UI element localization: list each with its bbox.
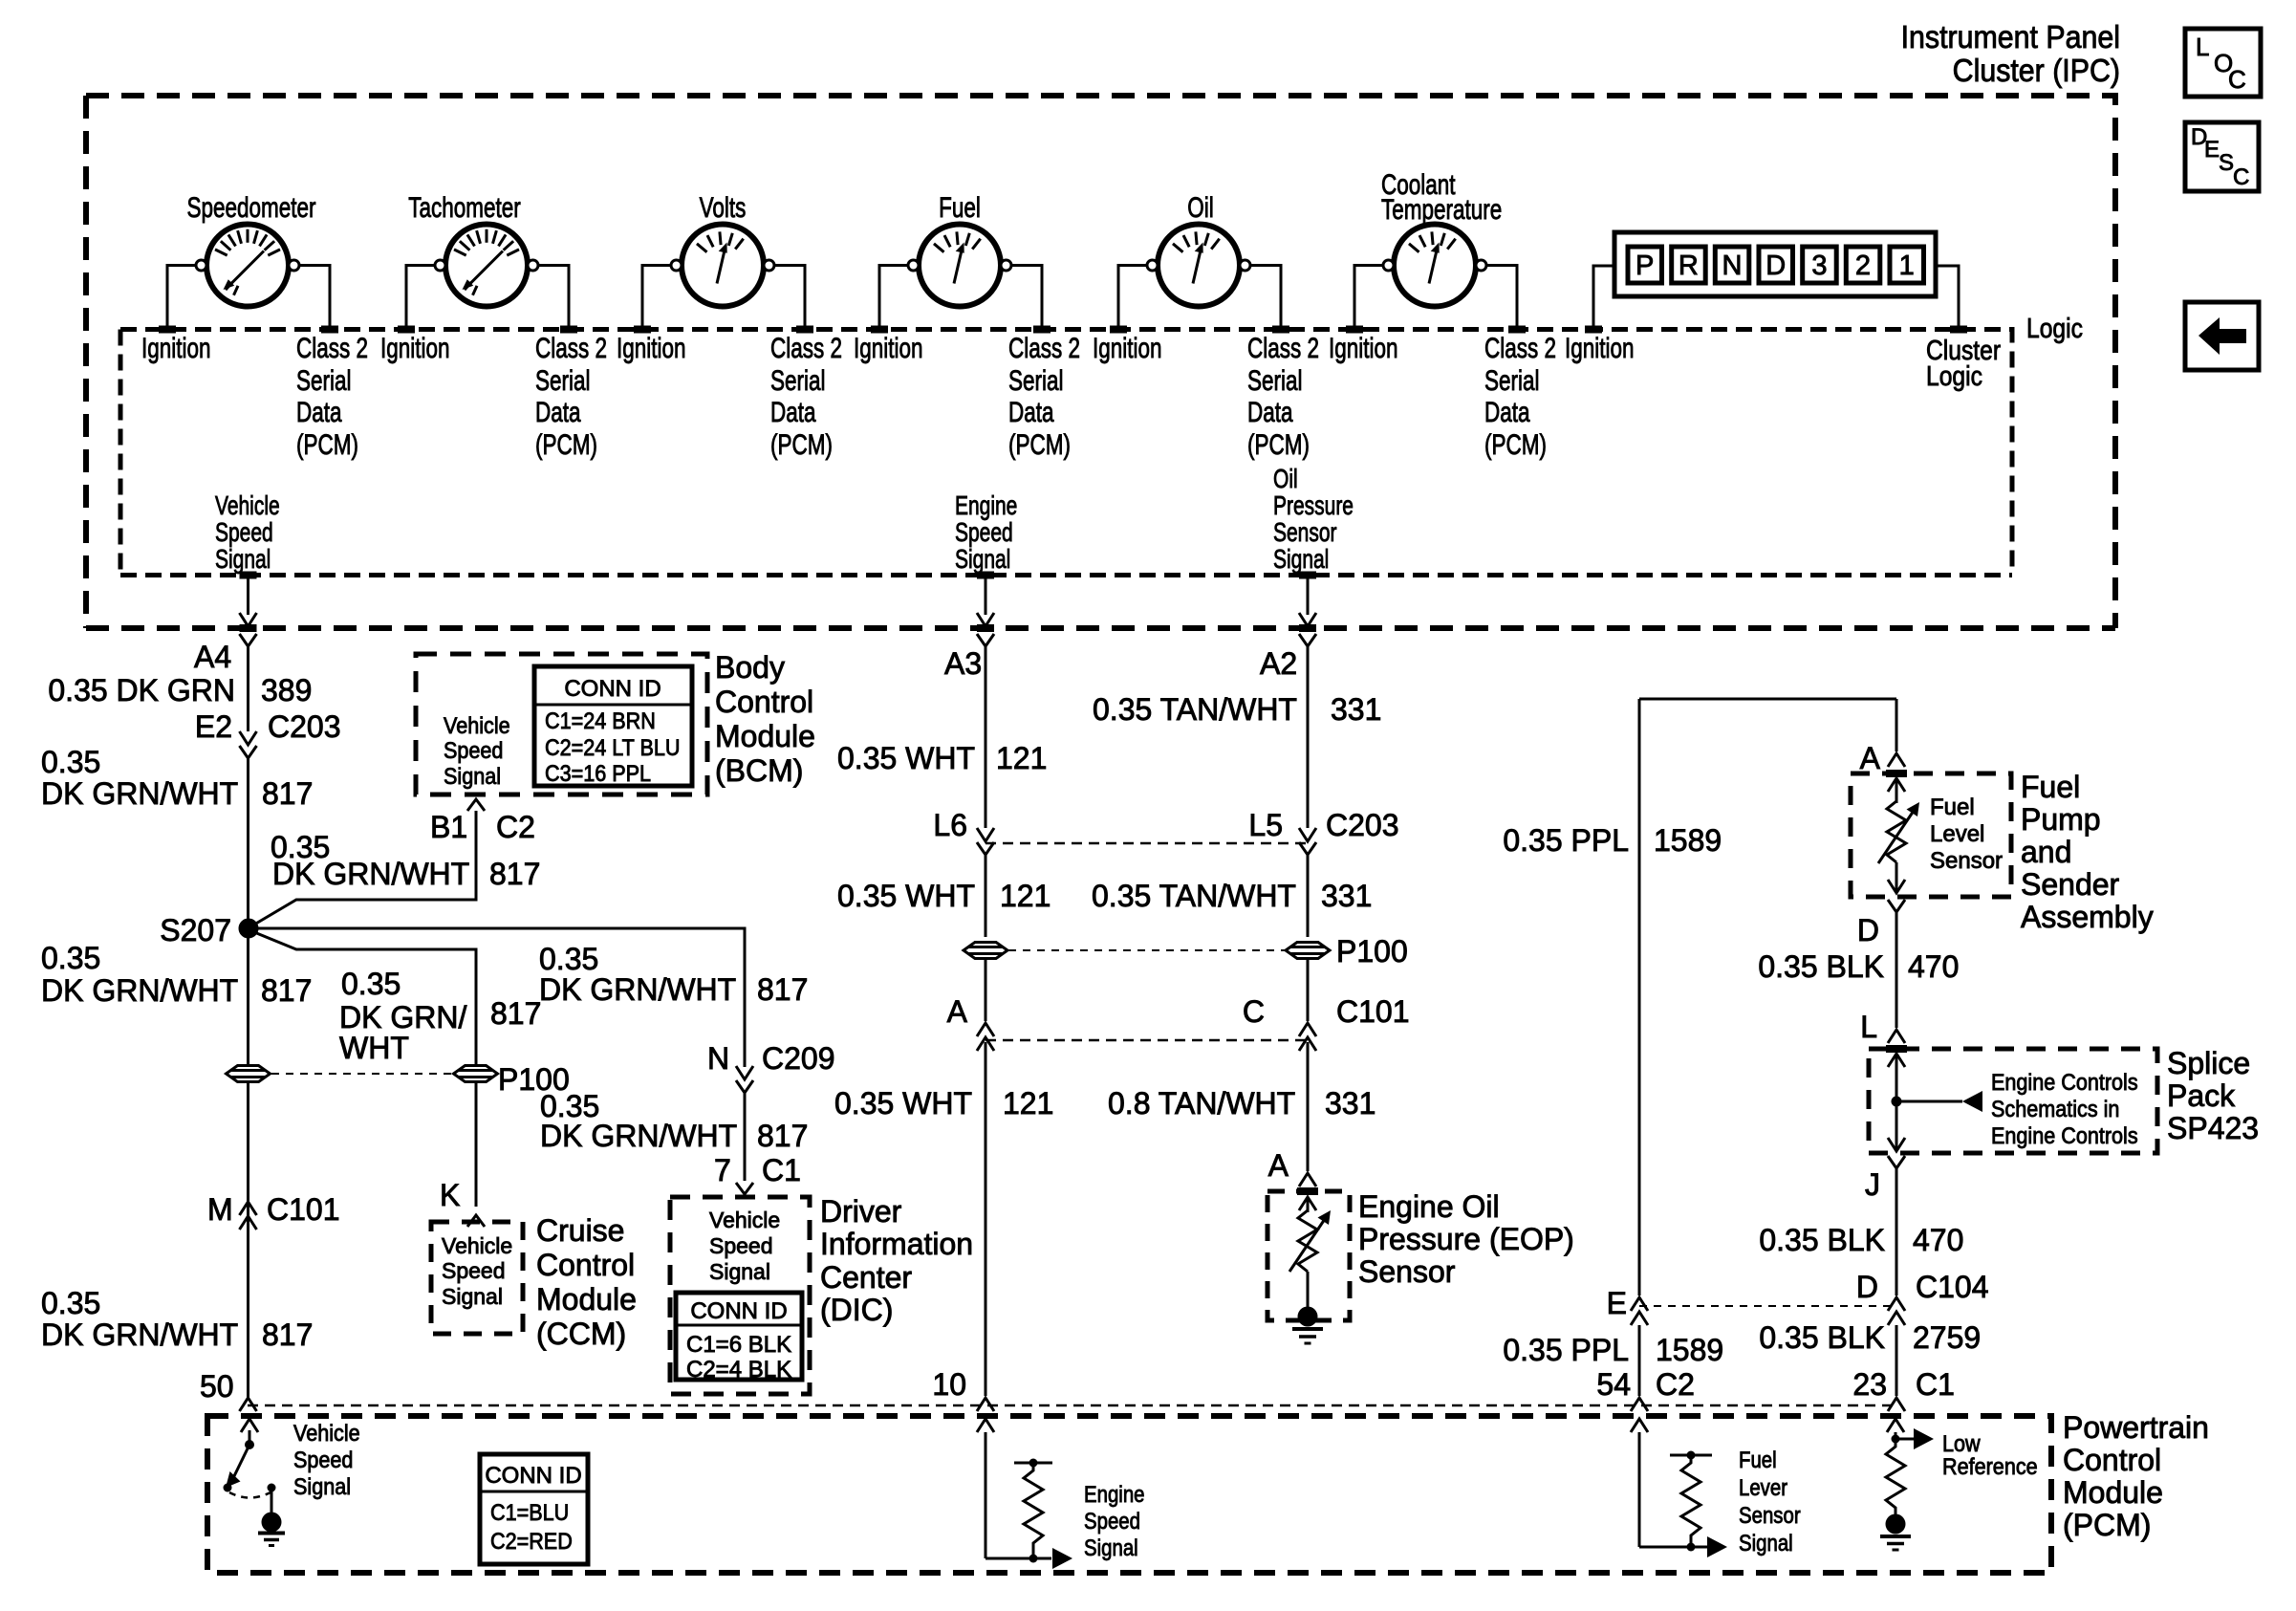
EOP variable resistor arrow xyxy=(1289,1216,1327,1272)
svg-text:Class 2: Class 2 xyxy=(535,332,607,364)
svg-text:Vehicle: Vehicle xyxy=(442,1233,512,1258)
splice tap arrowhead xyxy=(1962,1091,1982,1112)
svg-text:C: C xyxy=(1243,994,1265,1029)
svg-text:Serial: Serial xyxy=(770,364,826,397)
svg-text:CONN ID: CONN ID xyxy=(564,676,661,702)
svg-text:50: 50 xyxy=(200,1369,234,1404)
wire 2759 C104 to PCM 23 xyxy=(1895,1325,1898,1396)
svg-text:E: E xyxy=(1607,1286,1627,1320)
connector C209 arrow (N) xyxy=(736,1066,753,1079)
wire volts class2 lead xyxy=(774,266,805,327)
connector P100 symbol (engine wire) xyxy=(964,943,1007,959)
wire coolant class2 lead xyxy=(1486,266,1517,327)
wire prndl ignition lead xyxy=(1593,266,1614,326)
label Fuel Pump and Sender Assembly xyxy=(2021,770,2154,934)
svg-text:E: E xyxy=(2204,137,2220,163)
wire vehicle speed signal: IPC inner box to outer box xyxy=(247,576,249,616)
node Engine Speed Signal (PCM) xyxy=(1084,1481,1145,1560)
wire 121 C203 to P100 xyxy=(985,855,987,937)
gauge Speedometer xyxy=(196,225,299,307)
svg-text:0.35 TAN/WHT: 0.35 TAN/WHT xyxy=(1093,692,1297,727)
connector chevron L (splice entry) xyxy=(1888,1030,1905,1043)
svg-text:Data: Data xyxy=(296,396,342,428)
svg-text:Control: Control xyxy=(2063,1443,2161,1477)
svg-text:J: J xyxy=(1865,1167,1880,1202)
connector chevron A2 xyxy=(1299,634,1316,646)
svg-text:817: 817 xyxy=(490,996,541,1031)
svg-text:A2: A2 xyxy=(1260,646,1297,681)
wire fuel ignition lead xyxy=(879,266,908,327)
svg-text:Vehicle: Vehicle xyxy=(709,1208,780,1232)
svg-text:Data: Data xyxy=(1008,396,1054,428)
connector chevron A4 xyxy=(240,634,257,646)
svg-text:Signal: Signal xyxy=(442,1284,503,1309)
wire 817 P100 to C101 xyxy=(247,1082,249,1398)
svg-text:A3: A3 xyxy=(944,646,982,681)
fuel lever resistor top bar xyxy=(1670,1454,1712,1457)
svg-text:10: 10 xyxy=(932,1367,966,1402)
arrow into outer box edge (A2) xyxy=(1299,613,1316,626)
svg-text:0.35 WHT: 0.35 WHT xyxy=(837,879,975,913)
svg-text:Speed: Speed xyxy=(442,1258,506,1283)
svg-text:C104: C104 xyxy=(1916,1270,1989,1304)
module Fuel Pump and Sender Assembly dashed box xyxy=(1851,773,2011,897)
svg-text:0.35 PPL: 0.35 PPL xyxy=(1503,823,1629,858)
tick wire entry EOP box xyxy=(1297,1187,1318,1195)
svg-text:Vehicle: Vehicle xyxy=(215,491,280,521)
wire fuel class2 lead xyxy=(1011,266,1042,327)
tick wire entry splice box xyxy=(1886,1045,1907,1053)
svg-text:0.35 BLK: 0.35 BLK xyxy=(1759,1320,1885,1355)
svg-text:3: 3 xyxy=(1811,250,1827,281)
svg-text:Lever: Lever xyxy=(1739,1474,1788,1500)
svg-text:(DIC): (DIC) xyxy=(820,1293,893,1327)
wire oil pressure signal: inner to outer box xyxy=(1307,576,1310,616)
ticks where gauge leads cross inner box top edge xyxy=(159,326,1967,334)
svg-text:DK GRN/WHT: DK GRN/WHT xyxy=(540,1119,737,1153)
svg-text:K: K xyxy=(440,1178,460,1212)
svg-text:Speed: Speed xyxy=(444,737,503,763)
svg-text:Pressure (EOP): Pressure (EOP) xyxy=(1358,1222,1574,1256)
connector C104 chevron pair (D) xyxy=(1888,1297,1905,1325)
node Vehicle Speed Signal (IPC) xyxy=(215,491,280,575)
svg-text:R: R xyxy=(1679,250,1699,281)
svg-text:Ignition: Ignition xyxy=(141,332,211,364)
wire 817 segment C203 to S207 xyxy=(247,758,249,921)
svg-text:Module: Module xyxy=(2063,1475,2163,1510)
branch wire to DIC xyxy=(256,928,745,1067)
label Splice Pack SP423 xyxy=(2167,1046,2259,1145)
svg-text:Data: Data xyxy=(535,396,581,428)
svg-text:C203: C203 xyxy=(268,709,341,744)
connector C101 chevron (A) xyxy=(977,1023,994,1036)
svg-text:C2: C2 xyxy=(1656,1367,1695,1402)
module BCM dashed box xyxy=(416,654,707,795)
svg-text:Instrument Panel: Instrument Panel xyxy=(1901,19,2120,54)
PRNDL letters xyxy=(1635,250,1915,281)
svg-text:Logic: Logic xyxy=(2026,313,2083,343)
svg-text:54: 54 xyxy=(1596,1367,1631,1402)
connector chevron pin 10 xyxy=(977,1398,994,1411)
connector chevron K xyxy=(467,1215,485,1227)
node Vehicle Speed Signal (CCM) xyxy=(442,1233,512,1309)
ground (vehicle speed) xyxy=(262,1513,282,1533)
svg-text:817: 817 xyxy=(262,776,313,811)
engine speed resistor top dot xyxy=(1029,1459,1038,1468)
svg-text:Fuel: Fuel xyxy=(1739,1447,1777,1472)
connector C203 chevron xyxy=(240,746,257,758)
svg-text:B1: B1 xyxy=(430,810,467,844)
wire oil class2 lead xyxy=(1250,266,1281,327)
svg-text:CONN ID: CONN ID xyxy=(690,1298,787,1324)
fuel lever resistor zigzag xyxy=(1681,1455,1700,1547)
node Low Reference (PCM) xyxy=(1942,1430,2038,1479)
switch pivot dot xyxy=(245,1440,254,1449)
connector chevron EOP pin A xyxy=(1299,1173,1316,1186)
tick wire entry fuel pump box xyxy=(1886,770,1907,777)
svg-text:Fuel: Fuel xyxy=(939,191,981,224)
wire 1589 PPL left leg xyxy=(1638,699,1641,1295)
svg-text:C101: C101 xyxy=(1336,994,1410,1029)
svg-text:C1=24 BRN: C1=24 BRN xyxy=(545,708,656,733)
fuel level sensor resistor zigzag xyxy=(1887,801,1906,862)
svg-text:Schematics in: Schematics in xyxy=(1991,1096,2119,1121)
svg-text:CONN ID: CONN ID xyxy=(485,1463,581,1489)
svg-text:C203: C203 xyxy=(1326,808,1399,842)
svg-text:Serial: Serial xyxy=(1247,364,1303,397)
svg-text:C1: C1 xyxy=(1916,1367,1955,1402)
wire 331 C101 to EOP sensor xyxy=(1307,1042,1310,1171)
node Engine Speed Signal (IPC) xyxy=(955,491,1017,575)
wire 817 C209 to DIC xyxy=(744,1093,747,1181)
svg-text:C2: C2 xyxy=(496,810,535,844)
module DIC dashed box xyxy=(670,1197,810,1394)
svg-text:Serial: Serial xyxy=(535,364,591,397)
svg-text:121: 121 xyxy=(996,741,1047,775)
PCM pin 50 internal arrow up xyxy=(241,1419,258,1445)
svg-text:L: L xyxy=(1860,1010,1877,1044)
svg-text:D: D xyxy=(1857,913,1879,947)
svg-text:Module: Module xyxy=(536,1282,637,1317)
svg-text:Center: Center xyxy=(820,1260,912,1295)
connector chevron pin 7 C1 xyxy=(736,1183,753,1194)
low reference tap wire xyxy=(1895,1438,1914,1441)
svg-text:Tachometer: Tachometer xyxy=(408,191,521,224)
wire 817 S207 to P100 xyxy=(247,937,249,1065)
svg-text:Data: Data xyxy=(1484,396,1530,428)
svg-text:0.35 TAN/WHT: 0.35 TAN/WHT xyxy=(1092,879,1296,913)
svg-text:A: A xyxy=(947,994,968,1029)
svg-text:Signal: Signal xyxy=(444,763,501,789)
label Driver Information Center (DIC) xyxy=(820,1194,973,1327)
label Fuel Level Sensor xyxy=(1930,795,2003,874)
connector C101 dashed plane xyxy=(986,1039,1308,1042)
svg-text:0.35: 0.35 xyxy=(41,941,100,975)
svg-text:DK GRN/WHT: DK GRN/WHT xyxy=(41,1317,238,1352)
svg-text:Vehicle: Vehicle xyxy=(293,1420,360,1446)
wire right leg down to fuel pump A xyxy=(1895,699,1898,751)
wire tachometer ignition lead xyxy=(406,266,435,327)
svg-text:389: 389 xyxy=(261,673,312,708)
BCM CONN ID table xyxy=(534,666,692,786)
low reference resistor zigzag xyxy=(1886,1439,1905,1514)
svg-text:470: 470 xyxy=(1913,1223,1963,1257)
wire 121 A3 to C203 xyxy=(985,646,987,828)
LOC reference box xyxy=(2185,29,2261,97)
svg-text:Logic: Logic xyxy=(1926,360,1982,391)
DESC reference box xyxy=(2185,122,2259,191)
svg-text:Body: Body xyxy=(715,650,785,685)
fuel level sensor internal arrow up xyxy=(1888,778,1905,803)
gauge Fuel xyxy=(908,225,1011,307)
svg-text:Temperature: Temperature xyxy=(1381,193,1502,226)
wire engine speed signal: inner to outer box xyxy=(985,576,987,616)
svg-text:E2: E2 xyxy=(195,709,232,744)
svg-text:470: 470 xyxy=(1908,949,1959,984)
engine speed junction dot xyxy=(1029,1555,1038,1563)
IPC inner cluster-logic dashed box xyxy=(120,330,2012,576)
svg-text:Class 2: Class 2 xyxy=(296,332,368,364)
switch blade arrowhead xyxy=(226,1471,241,1488)
wire 470 below fuel pump (D to L) xyxy=(1895,912,1898,1028)
svg-text:Fuel: Fuel xyxy=(2021,770,2080,804)
svg-text:DK GRN/WHT: DK GRN/WHT xyxy=(41,973,238,1008)
svg-text:(PCM): (PCM) xyxy=(296,428,358,461)
svg-text:S207: S207 xyxy=(160,913,231,947)
PRNDL gear indicator xyxy=(1614,232,1936,296)
Cluster Logic label xyxy=(1926,335,2001,391)
svg-text:Control: Control xyxy=(715,685,813,719)
connector chevron pin 54 xyxy=(1631,1398,1648,1411)
connector C101 arrow xyxy=(977,1037,994,1051)
back-arrow reference box xyxy=(2185,302,2259,370)
svg-text:D: D xyxy=(1856,1270,1878,1304)
module PCM dashed box xyxy=(207,1416,2051,1573)
svg-text:Signal: Signal xyxy=(1084,1535,1138,1560)
label Engine Controls Schematics in Engine Controls xyxy=(1991,1069,2138,1148)
connector chevron D (fuel pump exit) xyxy=(1888,900,1905,912)
fuel lever junction dot xyxy=(1687,1543,1696,1552)
svg-text:Speedometer: Speedometer xyxy=(187,191,316,224)
svg-text:2: 2 xyxy=(1855,250,1871,281)
svg-text:817: 817 xyxy=(262,1317,313,1352)
svg-text:0.35: 0.35 xyxy=(41,1286,100,1320)
EOP internal arrow up xyxy=(1299,1197,1316,1212)
svg-text:817: 817 xyxy=(757,972,808,1007)
svg-text:817: 817 xyxy=(489,857,540,891)
svg-text:121: 121 xyxy=(1000,879,1051,913)
svg-text:D: D xyxy=(1765,250,1786,281)
svg-text:N: N xyxy=(1722,250,1743,281)
svg-text:Cluster (IPC): Cluster (IPC) xyxy=(1953,53,2120,88)
node Vehicle Speed Signal (DIC) xyxy=(709,1208,780,1284)
svg-text:Engine Controls: Engine Controls xyxy=(1991,1069,2138,1095)
svg-text:0.35: 0.35 xyxy=(341,967,401,1001)
svg-text:Sensor: Sensor xyxy=(1930,848,2003,874)
wire 389 segment A4 to C203 xyxy=(247,646,249,731)
wire 470 below splice (J to C104) xyxy=(1895,1168,1898,1295)
svg-text:Volts: Volts xyxy=(700,191,747,224)
svg-text:S: S xyxy=(2219,150,2234,176)
svg-text:Class 2: Class 2 xyxy=(770,332,842,364)
svg-text:Pack: Pack xyxy=(2167,1078,2236,1113)
P100 dashed link middle xyxy=(1008,949,1285,951)
svg-text:DK GRN/: DK GRN/ xyxy=(339,1000,466,1034)
connector C203 arrow (L5) xyxy=(1299,828,1316,841)
svg-text:Ignition: Ignition xyxy=(1329,332,1398,364)
svg-text:Class 2: Class 2 xyxy=(1484,332,1556,364)
svg-text:C1: C1 xyxy=(762,1153,801,1187)
svg-text:Ignition: Ignition xyxy=(1565,332,1635,364)
svg-text:121: 121 xyxy=(1003,1086,1053,1121)
connector C104 dashed plane xyxy=(1639,1305,1896,1307)
svg-text:Fuel: Fuel xyxy=(1930,795,1975,820)
svg-text:Signal: Signal xyxy=(293,1473,351,1499)
PCM pin 10 internal arrow up xyxy=(977,1419,994,1558)
switch blade xyxy=(232,1445,249,1480)
svg-text:WHT: WHT xyxy=(339,1031,409,1065)
svg-text:Powertrain: Powertrain xyxy=(2063,1410,2209,1445)
connector chevron pin 23 xyxy=(1888,1398,1905,1411)
svg-text:Serial: Serial xyxy=(296,364,352,397)
ticks where signal wires cross inner box bottom edge xyxy=(240,572,1317,579)
wire 1589 C104 to PCM 54 xyxy=(1638,1325,1641,1396)
svg-text:1589: 1589 xyxy=(1654,823,1722,858)
node Vehicle Speed Signal (PCM) xyxy=(293,1420,360,1499)
connector chevron pin 50 xyxy=(240,1398,257,1411)
fuel lever bottom wire xyxy=(1639,1546,1707,1549)
wire contact to ground xyxy=(271,1490,273,1513)
sensor EOP dashed box xyxy=(1267,1191,1350,1320)
svg-text:Signal: Signal xyxy=(955,545,1010,575)
svg-text:C: C xyxy=(2233,164,2249,190)
svg-text:Driver: Driver xyxy=(820,1194,902,1229)
fuel lever resistor top dot xyxy=(1687,1451,1696,1460)
svg-text:Cruise: Cruise xyxy=(536,1213,624,1248)
IPC outer dashed box xyxy=(86,96,2115,628)
svg-text:and: and xyxy=(2021,835,2071,869)
svg-text:C209: C209 xyxy=(762,1041,835,1076)
svg-text:Ignition: Ignition xyxy=(617,332,686,364)
svg-text:Serial: Serial xyxy=(1008,364,1064,397)
wire speedometer ignition lead xyxy=(167,266,196,327)
svg-text:C2=4 BLK: C2=4 BLK xyxy=(686,1357,791,1382)
svg-text:A4: A4 xyxy=(194,640,231,674)
svg-text:(PCM): (PCM) xyxy=(770,428,833,461)
svg-text:Class 2: Class 2 xyxy=(1008,332,1080,364)
svg-text:(PCM): (PCM) xyxy=(1247,428,1310,461)
svg-text:0.35: 0.35 xyxy=(41,745,100,779)
PCM connector dashed plane xyxy=(248,1404,1896,1407)
svg-text:2759: 2759 xyxy=(1913,1320,1981,1355)
svg-text:DK GRN/WHT: DK GRN/WHT xyxy=(41,776,238,811)
svg-text:(CCM): (CCM) xyxy=(536,1317,626,1351)
splice tap wire xyxy=(1896,1100,1962,1103)
gauge Tachometer xyxy=(435,225,538,307)
svg-text:(PCM): (PCM) xyxy=(535,428,597,461)
svg-text:DK GRN/WHT: DK GRN/WHT xyxy=(539,972,736,1007)
svg-text:Ignition: Ignition xyxy=(1093,332,1162,364)
DIC CONN ID table xyxy=(676,1293,802,1382)
low reference arrowhead xyxy=(1914,1428,1934,1449)
svg-text:Class 2: Class 2 xyxy=(1247,332,1319,364)
PCM pin 54 internal arrow up xyxy=(1631,1419,1648,1547)
svg-text:Module: Module xyxy=(715,719,815,753)
switch dashed arc xyxy=(229,1492,271,1498)
PCM pin 23 internal arrow up xyxy=(1887,1419,1904,1439)
svg-text:7: 7 xyxy=(714,1153,731,1187)
low reference junction dot xyxy=(1892,1435,1900,1444)
svg-text:Sensor: Sensor xyxy=(1739,1502,1801,1528)
connector C209 chevron xyxy=(736,1080,753,1093)
svg-text:C2=24 LT BLU: C2=24 LT BLU xyxy=(545,734,680,760)
svg-text:Level: Level xyxy=(1930,821,1984,847)
connector chevron A3 xyxy=(977,634,994,646)
engine speed signal arrowhead xyxy=(1052,1548,1072,1569)
svg-text:N: N xyxy=(707,1041,729,1076)
connector C104 chevron pair (E) xyxy=(1631,1297,1648,1325)
svg-text:Sensor: Sensor xyxy=(1273,518,1337,548)
wire fuel level sensor loop top xyxy=(1639,698,1896,701)
svg-text:Engine Oil: Engine Oil xyxy=(1358,1189,1500,1224)
svg-text:L5: L5 xyxy=(1248,808,1283,842)
svg-text:0.35 WHT: 0.35 WHT xyxy=(834,1086,972,1121)
svg-text:331: 331 xyxy=(1331,692,1381,727)
svg-text:23: 23 xyxy=(1852,1367,1887,1402)
svg-text:Data: Data xyxy=(770,396,816,428)
svg-text:C: C xyxy=(2228,65,2246,94)
connector chevron fuel pump pin A xyxy=(1888,753,1905,767)
svg-text:0.35: 0.35 xyxy=(539,942,598,976)
splice internal arrow up xyxy=(1888,1054,1905,1101)
connector C203 arrow (L6) xyxy=(977,828,994,841)
svg-text:Speed: Speed xyxy=(1084,1508,1140,1534)
connector C203 dashed plane xyxy=(986,842,1308,845)
svg-text:Signal: Signal xyxy=(1739,1530,1793,1556)
svg-text:Oil: Oil xyxy=(1273,465,1298,494)
splice junction dot xyxy=(1892,1097,1902,1107)
connector C203 chevron (L6) xyxy=(977,842,994,855)
svg-text:Ignition: Ignition xyxy=(854,332,923,364)
engine speed resistor top bar xyxy=(1014,1462,1052,1465)
fuel lever signal arrowhead xyxy=(1707,1536,1727,1557)
svg-text:C2=RED: C2=RED xyxy=(490,1528,573,1554)
wire 331 P100 to C101 xyxy=(1307,959,1310,1021)
splice internal arrow down xyxy=(1888,1101,1905,1151)
engine speed bottom wire xyxy=(986,1557,1051,1560)
connector C203 arrow (E2) xyxy=(240,731,257,745)
label Body Control Module (BCM) xyxy=(715,650,815,788)
svg-text:Sender: Sender xyxy=(2021,867,2120,902)
svg-text:331: 331 xyxy=(1321,879,1372,913)
svg-text:0.35 PPL: 0.35 PPL xyxy=(1503,1333,1629,1367)
svg-text:Speed: Speed xyxy=(215,518,273,548)
module CCM dashed box xyxy=(431,1222,523,1334)
svg-text:1: 1 xyxy=(1899,250,1915,281)
label Engine Oil Pressure (EOP) Sensor xyxy=(1358,1189,1574,1289)
svg-text:0.35 BLK: 0.35 BLK xyxy=(1759,1223,1885,1257)
wire CCM segment below P100 xyxy=(475,1082,478,1207)
svg-text:C101: C101 xyxy=(267,1192,340,1227)
svg-text:P100: P100 xyxy=(1336,934,1408,969)
switch left contact dot xyxy=(224,1484,232,1492)
connector C101 arrow xyxy=(1299,1037,1316,1051)
svg-text:C1=6 BLK: C1=6 BLK xyxy=(686,1332,791,1358)
svg-text:Speed: Speed xyxy=(709,1233,773,1258)
splice S207 xyxy=(240,920,257,937)
connector chevron J (splice exit) xyxy=(1888,1156,1905,1168)
gauge Volts xyxy=(671,225,774,307)
